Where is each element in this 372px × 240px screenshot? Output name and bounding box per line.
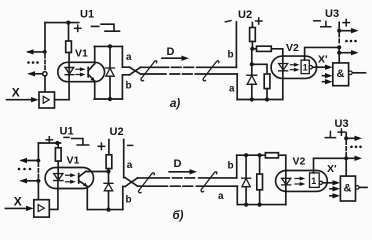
light arrows V2b (295, 178, 301, 180)
svg-text:&: & (337, 68, 345, 80)
line wire top solid left b (138, 177, 170, 179)
junction dot U3 low (337, 51, 341, 55)
crossover wires b (125, 178, 137, 187)
junction dot mid (250, 62, 254, 66)
detector logic box V2b (310, 173, 320, 188)
resistor R2b (106, 155, 112, 169)
wire R4 to rail (266, 89, 268, 100)
other input arrow 2 (323, 75, 328, 77)
U3 ground symbol (321, 21, 331, 26)
svg-text:U3: U3 (335, 118, 349, 130)
svg-text:U3: U3 (325, 8, 339, 20)
arrow D fig b (169, 171, 191, 173)
U1 plus sign (75, 25, 81, 31)
V2b Vcc pin wire (314, 158, 347, 173)
terminal b riser fig b (123, 186, 125, 209)
U3 minus sign (314, 20, 321, 22)
phototransistor V1b (78, 174, 80, 183)
node drop wire (251, 49, 253, 65)
U1b plus sign (46, 137, 52, 143)
svg-text:D: D (167, 46, 175, 58)
ellipsis dots (27, 61, 39, 64)
V2 Vcc pin wire (305, 47, 340, 60)
driver box b (34, 200, 50, 217)
U3 plus sign (343, 19, 349, 25)
svg-text:b: b (126, 195, 132, 206)
line wire top solid left (141, 66, 169, 68)
arrow to other channels top (28, 51, 45, 53)
U2b minus sign (128, 144, 133, 146)
U2b minus rail to terminal a (124, 140, 126, 178)
wire line b to U2 minus (235, 22, 237, 67)
light arrows V2 (290, 64, 295, 66)
wire driver output to LED cathode (55, 75, 70, 100)
svg-text:X′: X′ (318, 54, 328, 66)
transmitter top wire (94, 45, 122, 47)
wire R2 to node (251, 42, 253, 49)
AND output wire b (359, 186, 367, 188)
svg-text:D: D (174, 158, 182, 170)
transmitter bottom rail b (87, 209, 123, 211)
wire resistor to LED anode (68, 53, 70, 75)
svg-text:V2: V2 (293, 156, 306, 168)
receiver bottom rail fig b (237, 204, 285, 206)
wire R2b to node (108, 169, 110, 172)
svg-text:a: a (126, 52, 132, 63)
node dot R2 bottom (250, 47, 254, 51)
U3 plus rail (338, 22, 340, 30)
resistor R1 (66, 41, 72, 53)
emitter wire down (94, 81, 96, 99)
driver triangle symbol b (38, 205, 44, 212)
arrow to other channels top b (22, 160, 39, 162)
arrow to other channels bottom b (22, 180, 39, 182)
ellipsis dots U3b (350, 146, 362, 149)
optocoupler V2 body (271, 56, 317, 78)
LED of V2b (282, 178, 291, 185)
svg-text:1: 1 (311, 176, 316, 186)
collector wire up (94, 46, 96, 63)
driver box U1.1 (39, 92, 55, 108)
junction dot left drop b (37, 159, 41, 163)
inverter circle V2 out (309, 66, 312, 69)
AND gate DD1 (333, 63, 349, 86)
svg-text:a): a) (170, 98, 180, 110)
other input arrow 3 b (330, 195, 335, 197)
twisted pair slash left (141, 61, 157, 81)
U2b plus sign (98, 143, 104, 149)
clamp diode VD1b (108, 172, 110, 184)
svg-text:U2: U2 (238, 9, 252, 21)
junction dot diode bottom (108, 97, 112, 101)
light arrows V1 (76, 68, 82, 70)
U3b plus sign (338, 129, 344, 135)
resistor R4b (259, 155, 261, 174)
node junction dot U1 (66, 21, 70, 25)
svg-text:&: & (344, 183, 352, 195)
phototransistor V1 (87, 67, 89, 76)
terminal b riser (122, 75, 129, 99)
svg-text:V1: V1 (75, 48, 88, 60)
terminal a riser (122, 46, 129, 67)
optocoupler V1 body (58, 62, 105, 81)
collector wire right b (86, 171, 109, 173)
U2 minus tick (225, 21, 231, 22)
receiver bottom rail (237, 99, 282, 101)
U3b rail dashed (345, 141, 347, 156)
LED of V2 (279, 64, 288, 71)
twisted pair slash right (203, 61, 219, 81)
svg-text:X: X (14, 195, 22, 209)
light arrows V1b (66, 174, 72, 176)
junction dot VD2 bottom (250, 97, 254, 101)
svg-text:1: 1 (303, 62, 308, 72)
left supply drop wire (44, 23, 46, 52)
U1 common step symbol (101, 24, 120, 31)
clamp diode VD1 (109, 46, 111, 68)
wire U1 node to resistor (68, 23, 70, 41)
dashed drop wire (44, 55, 46, 72)
left supply drop wire b (37, 143, 39, 161)
resistor R2 (250, 28, 256, 42)
junction dot U3 mid (337, 45, 341, 49)
AND output circle b (356, 186, 360, 190)
LED of V1 (65, 68, 74, 75)
AND Vcc pin wire (338, 53, 340, 63)
input arrow X b (5, 207, 28, 209)
U3b ground symbol (325, 132, 335, 138)
AND Vcc pin wire b (345, 158, 347, 176)
line wire top solid right b (199, 177, 237, 179)
svg-text:b: b (228, 50, 234, 61)
wire rail to V2b LED cathode (285, 185, 287, 205)
input arrow X (7, 99, 33, 101)
wire R3 to V2 LED (271, 49, 283, 71)
line wire bottom solid left b (138, 185, 168, 187)
U3 rail dashed (338, 34, 340, 46)
wire between dots (338, 47, 340, 52)
driver triangle symbol (43, 96, 49, 103)
wire line a drop (236, 74, 238, 100)
junction dot U1b (55, 141, 59, 145)
U1 plus rail wire (45, 22, 79, 24)
AND gate DD1b (340, 176, 355, 201)
line wire bottom solid left (141, 73, 166, 75)
ellipsis dots U3 (345, 40, 357, 43)
U2b plus rail (108, 140, 110, 155)
junction dot left drop (43, 50, 47, 54)
clamp diode VD2b (245, 155, 247, 178)
AND output circle (349, 71, 353, 75)
junction dot VD1b bottom (106, 208, 110, 212)
svg-text:a: a (229, 84, 235, 95)
X' output wire with arrow b (323, 182, 335, 184)
U1b plus rail wire (38, 142, 60, 144)
junction dot diode top (108, 44, 112, 48)
U3b feed arrow 1 (346, 137, 356, 139)
emitter wire down b (86, 187, 88, 210)
svg-text:a: a (127, 160, 133, 171)
optocoupler V2 body fig b (276, 171, 328, 192)
other input arrow 3 (323, 81, 328, 83)
junction dot U3b low (344, 156, 348, 160)
wire line a drop fig b (236, 186, 238, 204)
junction dot diode top b (244, 153, 248, 157)
line wire top dashed b (173, 177, 196, 179)
wire line b rise fig b (236, 155, 238, 178)
line wire bottom solid right b (197, 185, 238, 187)
resistor R1b (55, 148, 61, 161)
wire node to R3 (252, 48, 256, 50)
resistor R4 (264, 74, 270, 89)
crossover wires (130, 67, 141, 74)
wire mid to R4 (252, 64, 267, 74)
wire dot to driver box b (37, 183, 39, 200)
junction dot R4 bottom (265, 97, 269, 101)
arrow to other channels bottom (30, 73, 43, 75)
U3b feed arrow 2 (346, 157, 356, 159)
optocoupler V1 body fig b (45, 168, 93, 189)
svg-text:V2: V2 (286, 42, 299, 54)
U3 feed arrow 2 (339, 52, 352, 54)
X' output wire with arrow (313, 66, 328, 68)
U1b minus sign (64, 136, 69, 138)
svg-text:b: b (228, 161, 234, 172)
resistor R3 (257, 46, 272, 51)
U3 feed arrow 1 (339, 30, 352, 32)
svg-text:V1: V1 (67, 155, 80, 167)
svg-text:U1: U1 (80, 9, 94, 21)
wire driver output to LED cathode b (49, 181, 58, 210)
receiver top rail b (237, 154, 266, 156)
junction dot resistor top b (258, 153, 262, 157)
U1b common step symbol (72, 139, 89, 146)
line wire bottom dashed (170, 73, 193, 75)
junction dot VD2b bottom (244, 203, 248, 207)
line wire top dashed (172, 66, 195, 68)
svg-text:U1: U1 (60, 126, 74, 138)
transmitter bottom wire (94, 98, 122, 100)
svg-text:U2: U2 (110, 126, 124, 138)
dashed drop wire b (37, 163, 39, 179)
clamp diode VD2 (251, 64, 253, 75)
ellipsis dots b (18, 168, 32, 171)
junction dot mid b (36, 179, 40, 183)
U3b plus rail (345, 133, 347, 139)
arrow D (162, 57, 183, 59)
resistor R3b horizontal (265, 153, 278, 158)
other input arrow 2 b (330, 188, 335, 190)
wire R1b to LED (57, 161, 59, 181)
wire ring to driver box (44, 76, 46, 92)
junction dot U3 top (337, 29, 341, 33)
U1 minus sign (92, 25, 99, 27)
line wire bottom dashed b (171, 185, 194, 187)
wire node to R1b (57, 143, 59, 148)
svg-text:b: b (126, 81, 132, 92)
LED of V1b (54, 174, 63, 181)
line wire bottom solid right (195, 73, 237, 75)
twisted pair slash right b (201, 172, 217, 192)
junction dot R4b bottom (258, 203, 262, 207)
svg-text:a: a (218, 191, 224, 202)
open junction ring (43, 72, 47, 76)
junction dot node b (106, 169, 110, 173)
svg-text:X: X (12, 85, 20, 99)
line wire top solid right (197, 66, 237, 68)
detector logic box V2 (301, 60, 309, 74)
twisted pair slash left b (139, 173, 155, 193)
svg-text:X′: X′ (327, 163, 337, 175)
wire R3b to LED b (278, 155, 285, 185)
AND output wire (352, 72, 365, 74)
inverter circle V2b out (319, 181, 322, 184)
svg-text:б): б) (173, 210, 184, 222)
U2 plus sign (256, 18, 262, 24)
junction dot U3b top (344, 136, 348, 140)
wire rail to V2 LED cathode (282, 71, 284, 100)
U2 plus rail stub (251, 23, 253, 28)
